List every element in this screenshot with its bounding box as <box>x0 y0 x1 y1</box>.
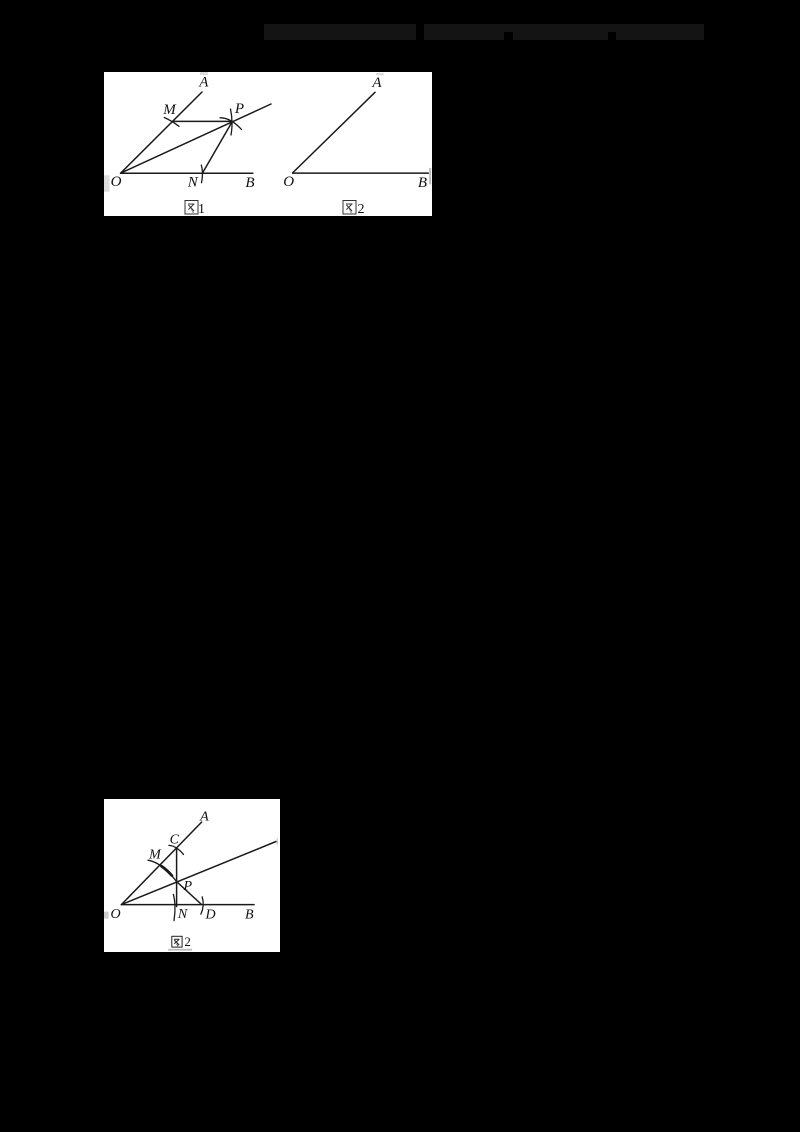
svg-text:1: 1 <box>198 202 205 216</box>
ray OA bottom figure <box>121 822 201 905</box>
svg-text:2: 2 <box>184 934 191 949</box>
ray OB fig2 <box>293 172 429 174</box>
svg-text:N: N <box>187 174 199 190</box>
gray artifact left edge near O bottom figure <box>104 912 109 919</box>
svg-text:B: B <box>245 907 254 922</box>
arc tick at N bottom figure <box>173 894 175 920</box>
gray artifact left edge near O fig1 <box>104 175 110 192</box>
caption 图1 glyph <box>185 201 198 215</box>
ray OA fig2 <box>293 92 375 173</box>
segment PD bottom figure <box>177 882 202 905</box>
vertical segment C-N bottom figure <box>176 848 178 906</box>
svg-text:M: M <box>148 848 162 863</box>
ray OA fig1 <box>121 92 202 173</box>
arc tick at N fig1 <box>201 165 202 183</box>
svg-text:B: B <box>245 175 254 191</box>
svg-text:O: O <box>110 907 120 922</box>
gray artifact above A fig2 <box>376 73 384 76</box>
caption 图 glyph bottom figure <box>172 936 182 947</box>
svg-text:A: A <box>371 75 382 91</box>
svg-text:O: O <box>111 174 122 190</box>
white panel 2 (worked figure 图2) <box>104 799 280 952</box>
segment NP fig1 <box>203 122 233 173</box>
ray OB fig1 <box>121 172 253 174</box>
gray artifact right edge fig2 <box>429 168 431 184</box>
diagonal arc through P fig1 <box>220 118 242 130</box>
black notch 2 in block 2 <box>608 32 616 40</box>
gray underline below caption bottom figure <box>168 949 192 951</box>
svg-text:2: 2 <box>358 202 365 216</box>
svg-text:D: D <box>204 907 215 922</box>
caption 图2 glyph <box>343 201 356 215</box>
svg-text:C: C <box>170 833 180 848</box>
arc from M to P bottom figure <box>148 860 177 881</box>
svg-text:A: A <box>199 809 209 824</box>
redacted title text block 2 <box>424 24 704 40</box>
svg-text:A: A <box>198 75 209 91</box>
bisector ray O through P bottom figure <box>121 842 276 905</box>
redacted title text block 1 <box>264 24 416 40</box>
svg-text:P: P <box>183 879 193 894</box>
svg-text:M: M <box>162 102 177 118</box>
vertical arc tick at P fig1 <box>231 109 233 135</box>
thick part of arc M-P bottom figure <box>162 866 172 875</box>
segment MP fig1 <box>173 120 233 122</box>
white panel 1 (figures 图1 and 图2) <box>104 72 432 216</box>
svg-text:B: B <box>418 175 427 191</box>
ray OB bottom figure <box>121 904 254 906</box>
arc tick at C bottom figure <box>169 845 184 854</box>
arc tick at M fig1 <box>164 118 179 127</box>
svg-text:P: P <box>234 101 244 117</box>
arc tick at D bottom figure <box>201 897 203 914</box>
black notch 1 in block 2 <box>504 32 513 40</box>
ray OP extended fig1 <box>121 104 271 173</box>
gray artifact right edge bottom figure <box>277 839 279 845</box>
svg-text:N: N <box>177 907 188 922</box>
gray artifact above A fig1 <box>200 72 208 75</box>
svg-text:O: O <box>283 174 294 190</box>
